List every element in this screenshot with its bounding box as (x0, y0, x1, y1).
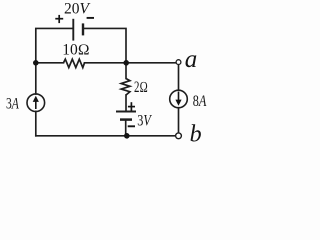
minus sign of 3V (128, 125, 135, 127)
wire 2ohm resistor to 3V battery (125, 95, 127, 111)
svg-text:10Ω: 10Ω (62, 42, 89, 59)
wire left rail top corner to battery (36, 28, 72, 62)
wire battery to top-right corner and down (84, 28, 126, 62)
wire middle rail between resistor and junction (85, 62, 127, 64)
wire 3A source to bottom rail (35, 111, 37, 135)
svg-text:3V: 3V (137, 112, 152, 129)
wire 3V battery to bottom rail (125, 120, 127, 136)
resistor 2ohm zigzag (121, 79, 130, 96)
plus sign of 20V (55, 15, 63, 23)
svg-text:2Ω: 2Ω (134, 79, 148, 96)
current source 3A circle (27, 94, 45, 112)
wire 8A branch from terminal a (178, 65, 180, 91)
arrow of 3A source (up) (35, 100, 37, 109)
battery 20V long plate (+) (72, 19, 74, 41)
wire left rail down to 3A source (35, 63, 37, 94)
svg-text:20V: 20V (64, 1, 91, 18)
junction dot bottom center (124, 133, 130, 139)
svg-text:a: a (185, 46, 198, 73)
wire 2ohm branch upper (125, 63, 127, 79)
wire bottom rail (36, 135, 176, 137)
wire 8A source to terminal b (178, 108, 180, 133)
junction dot center middle (123, 60, 129, 66)
battery 3V long plate (+) (116, 111, 136, 113)
terminal b (open circle) (176, 133, 182, 139)
plus sign of 3V (128, 102, 135, 111)
svg-text:8A: 8A (193, 93, 207, 110)
current source 8A circle (170, 90, 188, 108)
junction dot left middle (33, 60, 39, 66)
battery 20V short plate (-) (82, 23, 84, 35)
wire middle rail left segment (36, 62, 64, 64)
terminal a (open circle) (176, 60, 181, 65)
resistor 10ohm zigzag (64, 59, 85, 67)
battery 3V short plate (-) (120, 118, 132, 121)
arrow of 8A source (down) (178, 92, 180, 101)
svg-text:b: b (190, 122, 202, 148)
wire middle rail junction to terminal a (126, 62, 176, 64)
svg-text:3A: 3A (6, 96, 19, 113)
minus sign of 20V (87, 17, 94, 19)
